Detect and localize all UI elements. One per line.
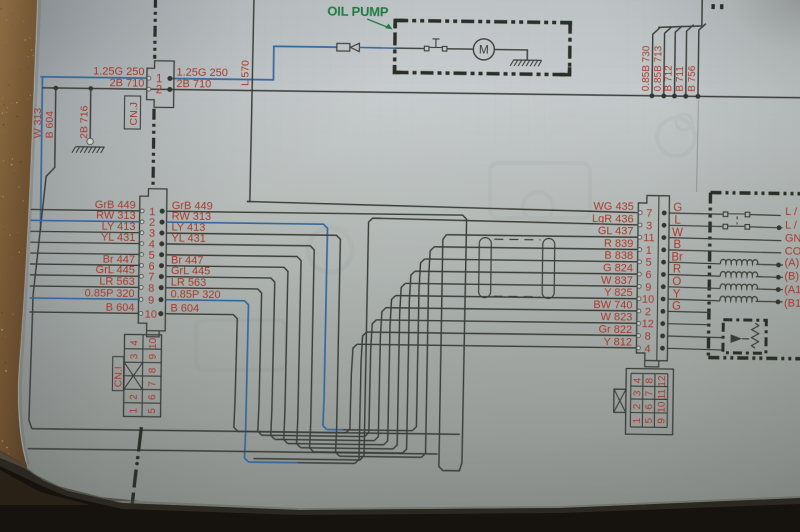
top edge marks <box>711 4 723 9</box>
svg-text:CO: CO <box>785 246 800 258</box>
wire B 604 drop <box>29 88 56 429</box>
right pin 12 (W 823) <box>637 318 665 330</box>
wire stub <box>30 231 139 232</box>
svg-text:7: 7 <box>147 381 158 387</box>
svg-text:R 839: R 839 <box>604 238 634 250</box>
CN.I pin 2 <box>140 217 165 229</box>
wire bus pin4 <box>164 244 638 456</box>
svg-text:B 838: B 838 <box>604 250 633 262</box>
wire row8 <box>668 336 724 338</box>
right pin 8 (Gr 822) <box>637 331 665 343</box>
svg-text:6: 6 <box>147 394 158 400</box>
svg-text:B 756: B 756 <box>687 65 698 92</box>
junction dot <box>53 86 58 91</box>
connector grid 12pin <box>613 368 673 434</box>
CN.J pin 2 <box>147 84 173 96</box>
CN.I pin 5 <box>140 249 165 261</box>
svg-text:10: 10 <box>656 401 667 413</box>
svg-text:YL 431: YL 431 <box>171 233 206 245</box>
svg-text:Y 812: Y 812 <box>603 336 632 348</box>
svg-text:8: 8 <box>148 283 154 295</box>
svg-text:(B1: (B1 <box>784 298 800 310</box>
svg-text:L 570: L 570 <box>239 60 251 86</box>
inline connector symbol <box>337 43 360 52</box>
svg-text:9: 9 <box>645 282 651 294</box>
coil row 6 <box>669 271 783 280</box>
svg-text:B 604: B 604 <box>170 302 199 314</box>
svg-text:GN: GN <box>785 233 800 245</box>
svg-text:LR 563: LR 563 <box>99 275 135 287</box>
coil row 10 <box>668 296 782 305</box>
svg-text:4: 4 <box>129 340 140 346</box>
svg-text:OIL PUMP: OIL PUMP <box>327 4 389 20</box>
svg-text:12: 12 <box>657 375 668 387</box>
wire GN <box>669 238 781 241</box>
wire stub <box>31 209 140 210</box>
svg-text:BW 740: BW 740 <box>593 299 632 312</box>
component box (chain border) <box>708 193 800 359</box>
right pin 9 (W 837) <box>637 281 665 293</box>
wire stub <box>30 242 139 243</box>
svg-text:9: 9 <box>148 354 159 360</box>
coil row 5 <box>669 259 783 268</box>
junction dot <box>88 86 93 91</box>
wire stub <box>30 264 139 265</box>
svg-text:12: 12 <box>642 318 654 330</box>
bus chain mid <box>153 109 154 187</box>
svg-text:L /: L / <box>785 206 798 218</box>
svg-text:Y 825: Y 825 <box>604 287 633 299</box>
right pin 10 (Y 825) <box>637 294 665 306</box>
wire bus pin8 <box>164 288 637 440</box>
CN.J pin 1 <box>147 73 173 85</box>
svg-text:L /: L / <box>785 220 798 232</box>
svg-text:3: 3 <box>632 390 643 396</box>
svg-text:1.25G 250: 1.25G 250 <box>93 65 145 78</box>
connector right box <box>636 195 669 367</box>
wire from top <box>247 0 254 202</box>
wire stub <box>29 312 138 313</box>
ground G2 <box>510 60 542 66</box>
svg-text:R: R <box>673 264 681 276</box>
wire bus pin5 <box>164 255 637 452</box>
right pin 1 (R 839) <box>638 245 666 257</box>
svg-text:(A): (A) <box>784 257 799 269</box>
svg-text:W 837: W 837 <box>601 274 633 286</box>
CN.I pin 10 <box>139 308 164 320</box>
wire 1.25G 250 right (blue) <box>172 45 336 81</box>
arrow <box>731 334 750 343</box>
right pin 11 (GL 437) <box>638 232 666 244</box>
CN.I box bottom step <box>147 331 160 337</box>
wire bus pin3 <box>164 233 638 460</box>
svg-text:(B): (B) <box>784 271 799 283</box>
svg-text:(A1: (A1 <box>784 284 800 296</box>
wire motor to ground <box>494 50 527 61</box>
svg-text:2: 2 <box>645 306 651 318</box>
svg-text:W 823: W 823 <box>600 311 632 323</box>
wire switch to motor <box>447 48 473 50</box>
svg-text:4: 4 <box>644 343 650 355</box>
svg-text:B 712: B 712 <box>663 65 674 92</box>
svg-text:5: 5 <box>645 257 651 269</box>
leader arrow <box>367 19 393 29</box>
wire bus pin7 <box>164 277 637 444</box>
svg-text:9: 9 <box>656 418 667 424</box>
svg-text:7: 7 <box>646 208 652 220</box>
svg-text:CN.J: CN.J <box>128 102 140 125</box>
wire row3 <box>253 217 637 464</box>
svg-text:2B 710: 2B 710 <box>109 77 144 89</box>
wire row4 <box>668 348 724 350</box>
svg-text:GL 437: GL 437 <box>598 225 634 237</box>
svg-text:8: 8 <box>148 367 159 373</box>
CN.I pin 3 <box>140 228 165 240</box>
svg-text:2: 2 <box>129 394 140 400</box>
wire stub <box>30 298 139 299</box>
svg-text:11: 11 <box>657 389 668 400</box>
wire stub <box>30 275 139 276</box>
resistor R <box>751 323 758 348</box>
wire into pump <box>395 47 424 49</box>
svg-text:8: 8 <box>644 331 650 343</box>
svg-text:10: 10 <box>148 337 159 349</box>
wire bus pin9 <box>163 300 636 467</box>
coil row 9 <box>669 283 783 292</box>
svg-text:LgR 436: LgR 436 <box>592 213 634 226</box>
svg-text:9: 9 <box>148 295 154 307</box>
right pin 5 (B 838) <box>638 257 666 269</box>
label CN.I box <box>112 357 124 391</box>
svg-text:0.85B 730: 0.85B 730 <box>641 45 653 91</box>
wire bottom bus L2 <box>28 449 438 454</box>
connector CN.J box <box>147 61 175 108</box>
CN.I pin 7 <box>139 271 164 283</box>
svg-text:0.85P 320: 0.85P 320 <box>85 287 135 300</box>
wire row2 <box>668 311 710 312</box>
bus chain bottom <box>132 427 142 508</box>
shield symbol <box>479 238 555 299</box>
wire bus pin1 <box>163 211 637 473</box>
wire bus pin6 <box>164 266 637 448</box>
svg-text:4: 4 <box>632 377 643 383</box>
svg-text:Y: Y <box>673 288 681 300</box>
oil pump box (chain border) <box>395 20 571 74</box>
wire 1.25G 250 (blue) <box>40 77 146 78</box>
CN.I pin 8 <box>139 282 164 294</box>
svg-text:6: 6 <box>644 403 655 409</box>
svg-text:Gr 822: Gr 822 <box>598 324 632 336</box>
right pin 6 (G 824) <box>637 269 665 281</box>
ground G1 <box>72 138 105 153</box>
svg-text:5: 5 <box>644 417 655 423</box>
svg-text:G 824: G 824 <box>603 262 633 274</box>
wire bus pin10 <box>164 314 636 437</box>
right pin 2 (BW 740) <box>637 306 665 318</box>
svg-text:1: 1 <box>129 407 140 413</box>
CN.I pin 1 <box>140 206 165 218</box>
pump switch <box>424 39 447 51</box>
svg-text:7: 7 <box>644 390 655 396</box>
svg-text:1: 1 <box>632 417 643 423</box>
wire bottom bus L1 <box>32 429 460 435</box>
svg-text:2B 716: 2B 716 <box>78 105 90 139</box>
svg-text:CN.I: CN.I <box>112 366 124 387</box>
wire stub <box>30 253 139 254</box>
svg-text:LR 563: LR 563 <box>171 276 207 288</box>
right pin 3 (LgR 436) <box>638 220 666 232</box>
CN.I pin 4 <box>140 239 165 251</box>
connector grid CN.I <box>124 334 162 416</box>
svg-text:B 711: B 711 <box>675 66 686 92</box>
svg-text:5: 5 <box>147 408 158 414</box>
switch S2 <box>669 224 782 231</box>
svg-text:2: 2 <box>156 84 163 96</box>
svg-text:YL 431: YL 431 <box>101 232 136 244</box>
svg-text:2B 710: 2B 710 <box>176 78 211 90</box>
wire stub <box>30 286 139 287</box>
wire CO <box>669 250 781 253</box>
motor M <box>473 39 494 60</box>
wire row12 <box>668 324 710 325</box>
svg-text:3: 3 <box>129 353 140 359</box>
bus chain top <box>153 0 157 59</box>
svg-text:WG 435: WG 435 <box>593 201 634 214</box>
wire 2B 710 (bus) <box>42 88 800 98</box>
connector CN.I box <box>138 189 167 331</box>
svg-text:O: O <box>672 276 681 288</box>
svg-text:B 604: B 604 <box>106 301 135 313</box>
wire to pin7 row <box>247 201 638 212</box>
right pin 4 (Y 812) <box>636 343 664 355</box>
CN.I pin 9 <box>139 294 164 306</box>
right pin 7 (WG 435) <box>638 208 666 220</box>
svg-text:8: 8 <box>644 377 655 383</box>
svg-text:1: 1 <box>646 245 652 257</box>
wires 0.85B730/713 B712/711/756 fan <box>650 23 706 99</box>
wire to oil pump box (blue) <box>359 46 394 49</box>
wire 2B 716 <box>89 88 92 137</box>
svg-text:10: 10 <box>642 294 654 306</box>
switch link <box>736 216 738 224</box>
svg-text:3: 3 <box>646 220 652 232</box>
label CN.J box <box>124 96 140 129</box>
svg-text:10: 10 <box>145 308 157 320</box>
svg-text:6: 6 <box>645 269 651 281</box>
wire bus pin2 <box>164 222 638 433</box>
svg-text:B 604: B 604 <box>44 111 56 139</box>
svg-text:11: 11 <box>643 232 655 244</box>
switch S1 <box>670 211 781 217</box>
svg-text:2: 2 <box>632 403 643 409</box>
wire stub <box>31 220 140 221</box>
CN.I pin 6 <box>139 260 164 272</box>
wire left edge (blue) <box>40 77 42 230</box>
svg-text:M: M <box>479 43 489 57</box>
resistor box (chain border) <box>723 320 766 354</box>
fan header <box>658 0 702 28</box>
